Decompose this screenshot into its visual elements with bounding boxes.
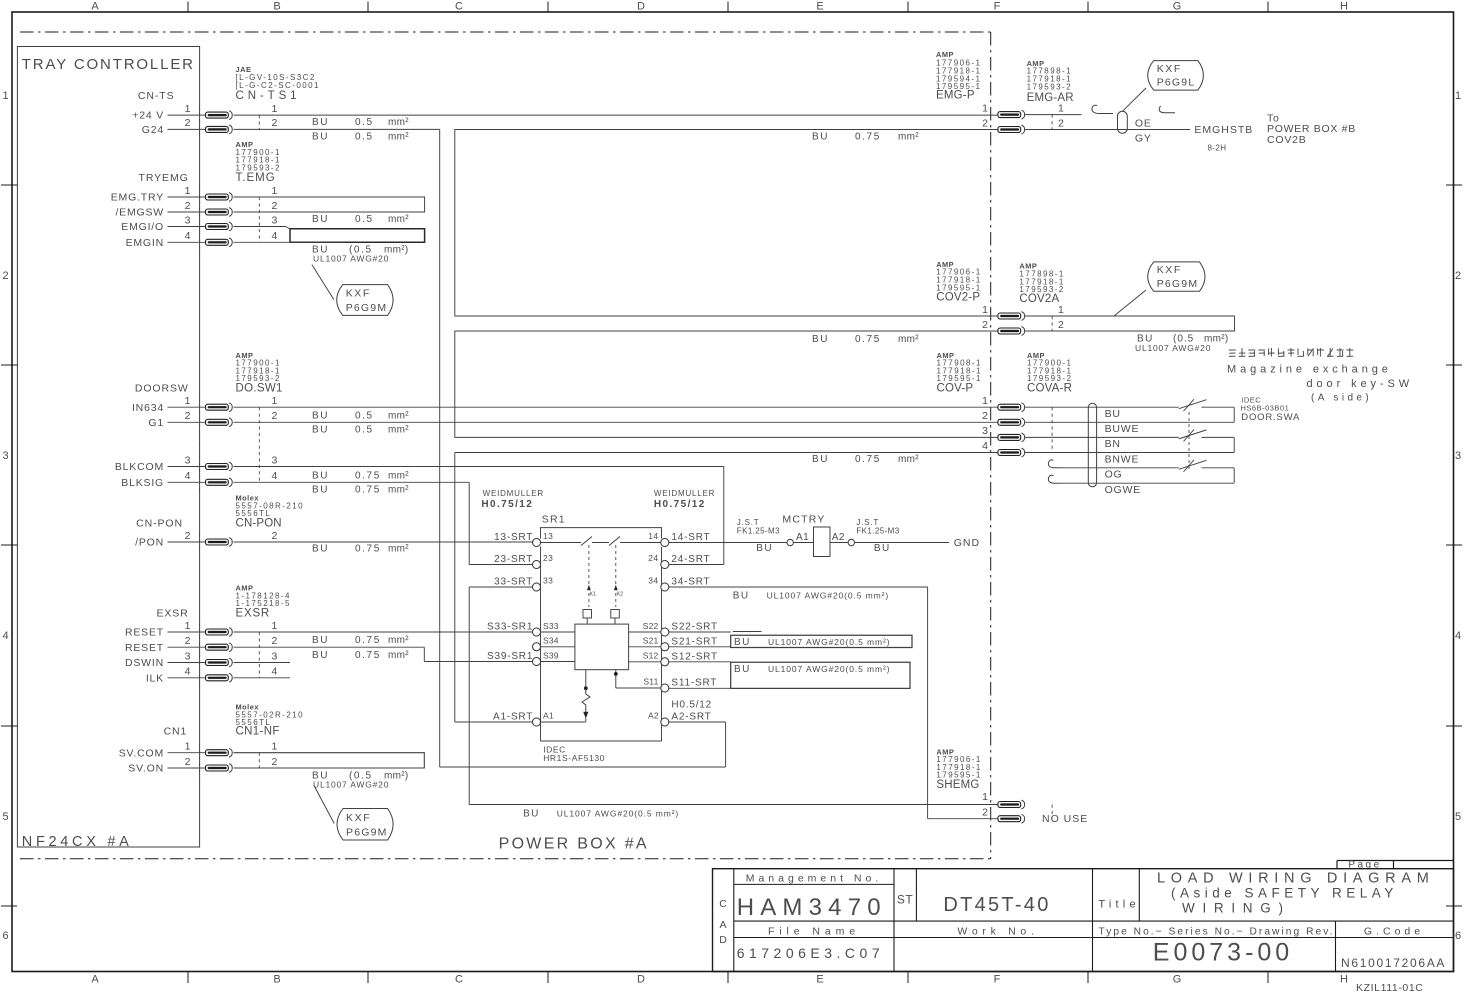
svg-text:A1: A1	[543, 711, 554, 721]
svg-text:OGWE: OGWE	[1105, 484, 1141, 496]
svg-text:mm²: mm²	[388, 425, 409, 436]
svg-text:G: G	[1173, 1, 1182, 13]
svg-text:mm²: mm²	[388, 544, 409, 555]
svg-text:5: 5	[2, 811, 8, 823]
svg-text:3: 3	[982, 425, 988, 437]
svg-text:0.75: 0.75	[855, 132, 881, 143]
svg-text:A2: A2	[648, 711, 659, 721]
svg-text:mm²: mm²	[388, 117, 409, 128]
svg-text:3: 3	[1455, 450, 1461, 462]
svg-text:BU: BU	[312, 214, 329, 225]
svg-text:A2: A2	[832, 532, 845, 543]
svg-text:3: 3	[185, 454, 191, 466]
svg-text:24: 24	[648, 553, 658, 563]
svg-text:CN-TS: CN-TS	[138, 90, 175, 102]
svg-text:2: 2	[272, 117, 278, 129]
svg-text:/EMGSW: /EMGSW	[115, 207, 164, 219]
svg-text:1: 1	[185, 620, 191, 632]
svg-text:2: 2	[1455, 270, 1461, 282]
svg-text:23-SRT: 23-SRT	[494, 554, 533, 565]
svg-text:BU: BU	[1105, 408, 1121, 420]
svg-text:S22-SRT: S22-SRT	[671, 622, 718, 633]
svg-text:H0.75/12: H0.75/12	[654, 499, 706, 510]
svg-text:4: 4	[272, 666, 278, 678]
svg-text:SV.ON: SV.ON	[128, 763, 164, 775]
svg-text:UL1007 AWG#20(0.5 mm²): UL1007 AWG#20(0.5 mm²)	[768, 664, 890, 674]
svg-text:CN-TS1: CN-TS1	[236, 90, 301, 102]
svg-text:LOAD WIRING DIAGRAM: LOAD WIRING DIAGRAM	[1157, 871, 1434, 887]
svg-text:mm²: mm²	[388, 410, 409, 421]
svg-text:A1: A1	[796, 532, 809, 543]
svg-text:SV.COM: SV.COM	[119, 747, 164, 759]
svg-text:UL1007 AWG#20: UL1007 AWG#20	[1135, 343, 1211, 353]
svg-text:BN: BN	[1105, 438, 1121, 450]
svg-text:BU: BU	[312, 132, 329, 143]
svg-text:2: 2	[982, 410, 988, 422]
svg-text:33: 33	[543, 576, 553, 586]
svg-text:DO.SW1: DO.SW1	[236, 382, 283, 394]
svg-text:CN-PON: CN-PON	[136, 517, 183, 529]
svg-text:D: D	[637, 974, 645, 986]
svg-text:2: 2	[272, 410, 278, 422]
svg-text:EXSR: EXSR	[156, 608, 188, 620]
svg-text:B: B	[273, 1, 280, 13]
svg-text:MCTRY: MCTRY	[782, 513, 825, 525]
svg-text:S22: S22	[643, 621, 659, 631]
svg-text:F: F	[994, 974, 1001, 986]
svg-text:CN1: CN1	[164, 725, 188, 737]
svg-text:617206E3.C07: 617206E3.C07	[737, 945, 884, 961]
svg-text:BU: BU	[312, 650, 329, 661]
svg-text:1: 1	[982, 102, 988, 114]
svg-text:mm²: mm²	[388, 650, 409, 661]
svg-text:COV2-P: COV2-P	[936, 291, 980, 303]
svg-text:1: 1	[185, 741, 191, 753]
svg-text:A: A	[91, 974, 99, 986]
svg-text:N610017206AA: N610017206AA	[1341, 956, 1446, 970]
svg-text:mm²: mm²	[388, 470, 409, 481]
svg-text:mm²: mm²	[388, 132, 409, 143]
svg-text:COVA-R: COVA-R	[1027, 382, 1072, 394]
svg-text:mm²: mm²	[898, 334, 919, 345]
svg-text:KXF: KXF	[1157, 63, 1182, 75]
svg-text:4: 4	[982, 440, 988, 452]
svg-text:3: 3	[185, 650, 191, 662]
svg-text:23: 23	[543, 553, 553, 563]
svg-text:DOORSW: DOORSW	[135, 382, 189, 394]
svg-text:BU: BU	[312, 410, 329, 421]
svg-text:BU: BU	[734, 637, 751, 648]
svg-text:24-SRT: 24-SRT	[671, 554, 710, 565]
svg-text:mm²: mm²	[898, 454, 919, 465]
svg-text:E: E	[816, 974, 823, 986]
svg-text:S33-SR1: S33-SR1	[487, 622, 533, 633]
svg-text:DT45T-40: DT45T-40	[943, 894, 1050, 916]
svg-text:0.75: 0.75	[355, 485, 381, 496]
svg-text:C: C	[455, 1, 463, 13]
svg-text:2: 2	[2, 270, 8, 282]
svg-text:A1-SRT: A1-SRT	[493, 712, 533, 723]
svg-text:1: 1	[272, 741, 278, 753]
svg-text:1: 1	[185, 185, 191, 197]
svg-text:(Aside SAFETY RELAY: (Aside SAFETY RELAY	[1171, 886, 1398, 901]
svg-text:SR1: SR1	[542, 513, 566, 525]
svg-text:EXSR: EXSR	[236, 608, 271, 620]
svg-text:S33: S33	[543, 621, 559, 631]
svg-text:UL1007 AWG#20(0.5 mm²): UL1007 AWG#20(0.5 mm²)	[768, 637, 890, 647]
svg-text:4: 4	[2, 630, 8, 642]
svg-text:2: 2	[982, 117, 988, 129]
svg-text:1: 1	[2, 90, 8, 102]
svg-text:2: 2	[185, 410, 191, 422]
svg-text:NO USE: NO USE	[1042, 813, 1088, 825]
svg-text:BU: BU	[312, 635, 329, 646]
svg-text:A: A	[719, 919, 726, 931]
svg-text:34-SRT: 34-SRT	[671, 577, 710, 588]
svg-text:P6G9L: P6G9L	[1157, 77, 1196, 89]
svg-text:EMG-AR: EMG-AR	[1027, 92, 1074, 104]
svg-text:WEIDMULLER: WEIDMULLER	[654, 489, 715, 498]
svg-text:3: 3	[2, 450, 8, 462]
svg-text:0.75: 0.75	[855, 334, 881, 345]
svg-text:DOOR.SWA: DOOR.SWA	[1241, 412, 1300, 423]
svg-text:COV2B: COV2B	[1267, 134, 1307, 146]
svg-text:Title: Title	[1098, 898, 1139, 910]
svg-text:COV-P: COV-P	[937, 382, 974, 394]
svg-text:S12: S12	[643, 650, 659, 660]
svg-text:CN-PON: CN-PON	[236, 517, 282, 529]
svg-text:C: C	[719, 898, 727, 910]
svg-text:mm²: mm²	[388, 485, 409, 496]
svg-text:1: 1	[1058, 102, 1064, 114]
svg-text:14-SRT: 14-SRT	[671, 532, 710, 543]
svg-text:6: 6	[2, 930, 8, 942]
svg-text:E: E	[816, 1, 823, 13]
svg-text:0.75: 0.75	[355, 650, 381, 661]
svg-text:EMG.TRY: EMG.TRY	[111, 192, 164, 204]
svg-text:+24 V: +24 V	[132, 110, 164, 122]
svg-text:G.Code: G.Code	[1364, 925, 1424, 937]
svg-text:F: F	[994, 1, 1001, 13]
svg-text:S21-SRT: S21-SRT	[671, 637, 718, 648]
svg-text:2: 2	[185, 530, 191, 542]
svg-text:H: H	[1340, 974, 1348, 986]
svg-text:Work No.: Work No.	[957, 925, 1038, 937]
svg-text:P6G9M: P6G9M	[1157, 278, 1199, 290]
svg-text:1: 1	[185, 103, 191, 115]
svg-text:H0.5/12: H0.5/12	[671, 700, 712, 711]
svg-text:A: A	[91, 1, 99, 13]
svg-text:BNWE: BNWE	[1105, 453, 1140, 465]
svg-text:1: 1	[1058, 304, 1064, 316]
svg-text:BU: BU	[874, 543, 891, 554]
svg-text:G1: G1	[148, 417, 164, 429]
svg-text:1: 1	[982, 791, 988, 803]
svg-text:CN1-NF: CN1-NF	[236, 725, 280, 737]
svg-text:1: 1	[272, 103, 278, 115]
svg-text:1: 1	[272, 620, 278, 632]
svg-text:4: 4	[1455, 630, 1461, 642]
svg-text:BU: BU	[812, 132, 829, 143]
svg-text:C: C	[455, 974, 463, 986]
svg-text:33-SRT: 33-SRT	[494, 577, 533, 588]
svg-text:SHEMG: SHEMG	[936, 779, 979, 791]
svg-text:ST: ST	[897, 893, 913, 907]
svg-text:mm²: mm²	[898, 132, 919, 143]
svg-text:EMGI/O: EMGI/O	[121, 221, 164, 233]
svg-text:EMGIN: EMGIN	[126, 237, 164, 249]
svg-text:WEIDMULLER: WEIDMULLER	[483, 489, 544, 498]
svg-text:14: 14	[648, 531, 658, 541]
svg-text:H0.75/12: H0.75/12	[481, 499, 533, 510]
svg-text:WIRING): WIRING)	[1182, 901, 1291, 916]
svg-text:OG: OG	[1105, 469, 1123, 481]
svg-text:Management No.: Management No.	[746, 872, 883, 884]
svg-text:2: 2	[185, 200, 191, 212]
svg-text:UL1007 AWG#20: UL1007 AWG#20	[313, 780, 389, 790]
svg-text:ILK: ILK	[146, 672, 164, 684]
svg-text:1: 1	[272, 185, 278, 197]
svg-text:GND: GND	[954, 537, 980, 549]
svg-text:1: 1	[982, 304, 988, 316]
svg-text:B: B	[273, 974, 280, 986]
svg-text:BLKCOM: BLKCOM	[115, 461, 164, 473]
svg-text:4: 4	[272, 230, 278, 242]
svg-text:BU: BU	[812, 454, 829, 465]
svg-text:File Name: File Name	[768, 925, 860, 937]
svg-text:4: 4	[185, 666, 191, 678]
svg-text:0.5: 0.5	[355, 117, 374, 128]
svg-text:FK1.25-M3: FK1.25-M3	[856, 527, 899, 536]
svg-text:GY: GY	[1135, 132, 1152, 144]
svg-text:3: 3	[272, 650, 278, 662]
svg-text:S11: S11	[643, 677, 658, 687]
svg-text:BU: BU	[523, 809, 540, 820]
svg-text:A2-SRT: A2-SRT	[671, 712, 711, 723]
svg-text:S39: S39	[543, 650, 559, 660]
svg-text:KXF: KXF	[346, 812, 371, 824]
svg-text:13-SRT: 13-SRT	[494, 532, 533, 543]
svg-text:door key-SW: door key-SW	[1307, 378, 1413, 390]
svg-text:/PON: /PON	[135, 537, 164, 549]
svg-text:Type No.− Series No.− Drawing: Type No.− Series No.− Drawing Rev.	[1099, 926, 1335, 937]
svg-text:NF24CX #A: NF24CX #A	[22, 834, 133, 850]
svg-text:K1: K1	[590, 592, 597, 598]
svg-text:POWER BOX #A: POWER BOX #A	[499, 836, 649, 853]
svg-text:13: 13	[543, 531, 553, 541]
svg-text:(A side): (A side)	[1311, 393, 1372, 404]
svg-text:S21: S21	[643, 636, 659, 646]
svg-text:[L-G-C2-SC-0001: [L-G-C2-SC-0001	[236, 81, 320, 90]
svg-text:2: 2	[272, 530, 278, 542]
svg-text:2: 2	[982, 806, 988, 818]
svg-text:EMG-P: EMG-P	[936, 90, 975, 102]
svg-text:4: 4	[272, 470, 278, 482]
svg-text:BU: BU	[312, 544, 329, 555]
svg-text:KXF: KXF	[1157, 264, 1182, 276]
svg-text:BU: BU	[312, 485, 329, 496]
svg-text:0.75: 0.75	[855, 454, 881, 465]
svg-text:0.5: 0.5	[355, 132, 374, 143]
svg-text:3: 3	[272, 454, 278, 466]
svg-text:KXF: KXF	[346, 288, 371, 300]
svg-text:3: 3	[185, 214, 191, 226]
svg-text:BU: BU	[756, 543, 773, 554]
svg-text:3: 3	[272, 214, 278, 226]
svg-text:UL1007 AWG#20: UL1007 AWG#20	[313, 253, 389, 263]
svg-text:BU: BU	[733, 591, 750, 602]
svg-text:EMGHSTB: EMGHSTB	[1194, 124, 1253, 136]
svg-text:S39-SR1: S39-SR1	[487, 651, 533, 662]
svg-text:0.5: 0.5	[355, 214, 374, 225]
svg-text:RESET: RESET	[125, 642, 164, 654]
svg-text:BU: BU	[312, 425, 329, 436]
svg-text:0.75: 0.75	[355, 544, 381, 555]
svg-text:G: G	[1173, 974, 1182, 986]
svg-text:0.5: 0.5	[355, 425, 374, 436]
svg-text:G24: G24	[142, 124, 164, 136]
svg-text:P6G9M: P6G9M	[346, 827, 388, 839]
svg-text:179593-2: 179593-2	[1027, 82, 1072, 91]
svg-text:OE: OE	[1135, 118, 1152, 130]
svg-text:H: H	[1340, 1, 1348, 13]
svg-text:2: 2	[272, 200, 278, 212]
svg-text:1: 1	[982, 395, 988, 407]
svg-text:2: 2	[185, 756, 191, 768]
svg-text:FK1.25-M3: FK1.25-M3	[737, 527, 780, 536]
svg-text:8-2H: 8-2H	[1208, 144, 1227, 153]
svg-text:TRYEMG: TRYEMG	[139, 172, 189, 184]
svg-text:T.EMG: T.EMG	[236, 172, 276, 184]
svg-text:Magazine exchange: Magazine exchange	[1227, 364, 1392, 376]
svg-text:BUWE: BUWE	[1105, 423, 1140, 435]
svg-text:4: 4	[185, 470, 191, 482]
svg-text:0.5: 0.5	[355, 410, 374, 421]
svg-text:E0073-00: E0073-00	[1153, 939, 1293, 967]
svg-text:BLKSIG: BLKSIG	[121, 477, 164, 489]
svg-text:2: 2	[272, 635, 278, 647]
svg-text:IN634: IN634	[132, 402, 164, 414]
svg-text:mm²: mm²	[388, 635, 409, 646]
svg-text:5: 5	[1455, 811, 1461, 823]
svg-text:TRAY CONTROLLER: TRAY CONTROLLER	[22, 56, 195, 73]
svg-text:K2: K2	[617, 592, 624, 598]
svg-text:HAM3470: HAM3470	[737, 894, 887, 921]
svg-text:mm²: mm²	[388, 214, 409, 225]
svg-text:S11-SRT: S11-SRT	[671, 678, 717, 689]
svg-text:D: D	[719, 934, 727, 946]
svg-text:2: 2	[982, 319, 988, 331]
svg-text:6: 6	[1455, 930, 1461, 942]
svg-text:2: 2	[1058, 117, 1064, 129]
svg-text:KZIL111-01C: KZIL111-01C	[1356, 982, 1424, 992]
svg-text:34: 34	[648, 576, 658, 586]
svg-text:HR1S-AF5130: HR1S-AF5130	[543, 753, 605, 763]
svg-text:2: 2	[1058, 319, 1064, 331]
svg-text:1: 1	[185, 395, 191, 407]
svg-text:1: 1	[272, 395, 278, 407]
svg-text:DSWIN: DSWIN	[125, 657, 164, 669]
svg-text:P6G9M: P6G9M	[346, 302, 388, 314]
svg-text:UL1007 AWG#20(0.5 mm²): UL1007 AWG#20(0.5 mm²)	[557, 809, 679, 819]
svg-text:2: 2	[185, 117, 191, 129]
svg-text:UL1007 AWG#20(0.5 mm²): UL1007 AWG#20(0.5 mm²)	[767, 591, 889, 601]
svg-text:BU: BU	[312, 470, 329, 481]
svg-text:1: 1	[1455, 90, 1461, 102]
svg-text:0.75: 0.75	[355, 635, 381, 646]
svg-text:BU: BU	[312, 117, 329, 128]
svg-text:BU: BU	[812, 334, 829, 345]
svg-text:0.75: 0.75	[355, 470, 381, 481]
svg-text:4: 4	[185, 230, 191, 242]
svg-text:S34: S34	[543, 636, 559, 646]
svg-text:S12-SRT: S12-SRT	[671, 652, 718, 663]
svg-text:D: D	[637, 1, 645, 13]
svg-text:RESET: RESET	[125, 627, 164, 639]
svg-text:2: 2	[185, 635, 191, 647]
svg-text:BU: BU	[734, 664, 751, 675]
svg-text:COV2A: COV2A	[1019, 293, 1059, 305]
svg-text:2: 2	[272, 756, 278, 768]
